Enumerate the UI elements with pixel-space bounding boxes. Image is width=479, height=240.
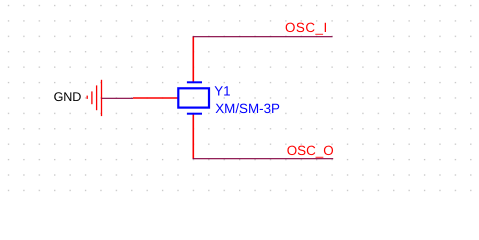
svg-text:XM/SM-3P: XM/SM-3P: [215, 101, 280, 116]
crystal Y1 body rectangle: [178, 88, 209, 107]
ground GND power symbol: [87, 80, 101, 116]
pin 3 (bottom) of Y1: [192, 114, 194, 159]
pin 1 (top) of Y1: [192, 37, 194, 82]
crystal Y1 top plate: [187, 81, 202, 83]
wire net OSC_I (top horizontal): [193, 36, 333, 38]
svg-text:Y1: Y1: [214, 84, 230, 99]
svg-text:OSC_I: OSC_I: [285, 20, 328, 35]
pin 2 (left case pin) of Y1: [133, 97, 178, 99]
svg-text:GND: GND: [54, 90, 82, 104]
crystal Y1 bottom plate: [187, 113, 202, 115]
wire GND to crystal pin: [102, 97, 134, 99]
svg-text:OSC_O: OSC_O: [287, 143, 334, 158]
wire net OSC_O (bottom horizontal): [193, 158, 334, 160]
